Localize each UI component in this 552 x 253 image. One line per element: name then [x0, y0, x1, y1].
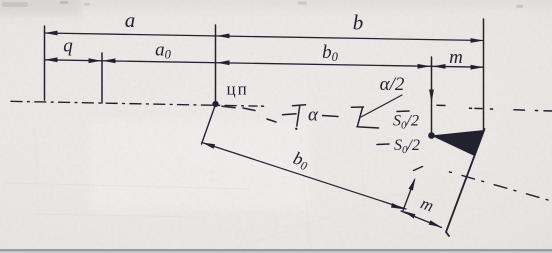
rotated end line of turnout: [446, 129, 485, 236]
label S0/2 upper: [393, 113, 419, 132]
angle tick mark 1: [293, 105, 306, 130]
arrow b0 left at CP: [217, 60, 230, 65]
arrow b left at CP: [217, 34, 230, 39]
label a0: [155, 40, 172, 62]
arrow m top right: [471, 65, 484, 70]
label S0/2 lower: [394, 137, 420, 156]
arrow b right: [471, 38, 484, 43]
svg-text:a: a: [125, 8, 136, 32]
frog wedge (black): [431, 130, 484, 156]
arrow line from b0/m junction up toward frog center: [403, 167, 423, 211]
tilted dimension line m: [401, 211, 442, 228]
arrow b0 right: [418, 64, 431, 69]
diverging track axis lower segment (dash-dot): [450, 172, 549, 200]
arrow a left: [45, 31, 58, 36]
label a: [125, 8, 136, 32]
main track axis left segment (dash-dot centerline): [11, 101, 257, 106]
faint bleed-through marks lower-left: [5, 130, 430, 250]
bottom page edge shadow: [0, 249, 552, 253]
leader line to alpha/2: [361, 95, 402, 117]
label b: [353, 11, 364, 35]
extension line right end of turnout: [483, 19, 485, 131]
svg-text:α/2: α/2: [380, 74, 405, 95]
arrow q right: [89, 58, 102, 63]
center of turnout point CP: [212, 101, 218, 107]
dash left of lower S0/2 label: [377, 143, 389, 146]
dimension line q/a0/b0/m: [45, 60, 484, 67]
label q: [63, 36, 73, 57]
svg-text:b: b: [353, 11, 364, 35]
arrow m top left: [433, 64, 446, 69]
label m tilted: [418, 194, 436, 216]
arrow m tilted right: [429, 220, 442, 227]
extension line left (joint of frame rail): [44, 26, 46, 100]
angle annotation dash right: [323, 116, 339, 117]
extension line through center CP: [215, 25, 217, 103]
main track axis dot: [262, 105, 264, 107]
label alpha/2: [380, 74, 405, 95]
svg-text:S0/2: S0/2: [393, 113, 419, 132]
label m top: [449, 47, 463, 68]
label alpha: [308, 105, 319, 126]
arrow b0 tilted lower-right: [391, 203, 404, 209]
extension line q/a0 boundary: [101, 53, 103, 103]
arrow down to frog center: [429, 90, 434, 103]
angle annotation dash left: [283, 114, 297, 115]
label b0 tilted: [290, 148, 311, 174]
extension line from CP perpendicular to diverging axis: [202, 105, 216, 145]
dimension line a-b (full length): [45, 33, 484, 41]
tilted dimension line b0: [202, 143, 406, 210]
angle tick mark 2: [352, 107, 379, 128]
faint specks along top margin: [2, 1, 523, 8]
main track axis right segment (dash-dot centerline): [437, 105, 552, 111]
svg-text:α: α: [308, 105, 319, 126]
arrow a0 left: [103, 58, 116, 63]
label b0 top: [322, 42, 339, 64]
diverging track axis near CP (dash-dot): [222, 106, 276, 122]
arrow q left: [45, 57, 58, 62]
arrowhead up toward frog center: [409, 178, 416, 191]
svg-text:цп: цп: [227, 80, 249, 99]
arrow b0 tilted upper-left: [202, 143, 215, 149]
dash above upper S0/2 label: [397, 110, 409, 113]
svg-text:S0/2: S0/2: [394, 137, 420, 156]
svg-text:m: m: [449, 47, 463, 68]
extension line b0/m boundary with drop to frog center: [431, 57, 433, 133]
frog mathematical center point: [428, 132, 435, 139]
label CP: [227, 80, 249, 99]
arrow m tilted left: [403, 211, 415, 219]
svg-text:q: q: [63, 36, 73, 57]
